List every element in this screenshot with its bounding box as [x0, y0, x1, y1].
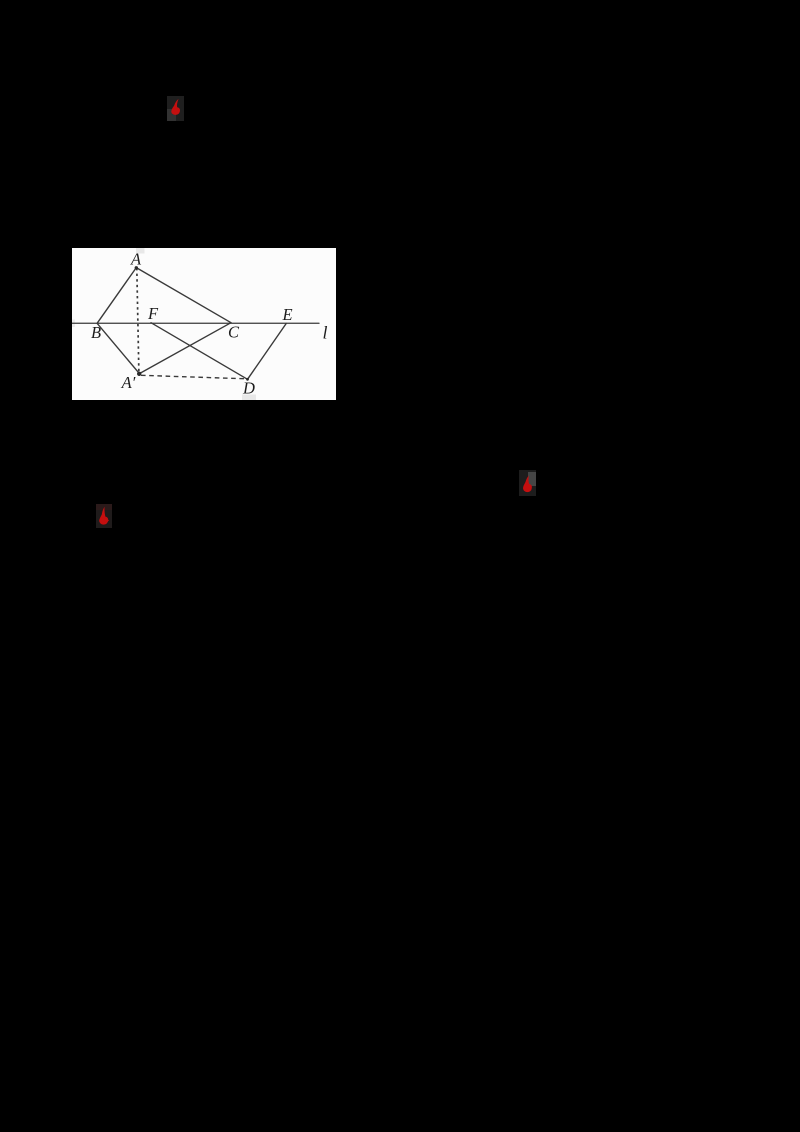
dashed A-A' — [137, 268, 139, 374]
svg-text:l: l — [322, 323, 327, 343]
svg-text:C: C — [228, 323, 240, 342]
red marker icon 3 (left) — [96, 504, 112, 528]
line l — [72, 322, 319, 324]
svg-text:A: A — [130, 250, 142, 269]
gray artifact bottom near D — [242, 395, 256, 401]
svg-text:E: E — [281, 305, 292, 324]
segment A-C — [136, 268, 231, 323]
vertex dot D — [246, 378, 249, 381]
svg-text:B: B — [91, 323, 101, 342]
geometry figure: white inset — [72, 248, 336, 400]
red marker icon 2 (right) — [519, 470, 536, 496]
red marker icon 1 (top) — [167, 96, 184, 121]
segment E-D — [248, 324, 287, 380]
segment A'-C — [139, 323, 231, 374]
gray artifact left edge on line l — [72, 320, 75, 328]
svg-text:A′: A′ — [121, 373, 136, 392]
svg-text:F: F — [147, 304, 159, 323]
gray artifact top — [136, 248, 145, 254]
dashed A'-D — [141, 375, 246, 379]
segment B-A — [97, 268, 136, 324]
vertex dot A — [135, 266, 138, 269]
segment F-D — [151, 323, 248, 380]
segment B-A' — [97, 323, 139, 373]
svg-text:D: D — [242, 379, 255, 398]
vertex dot A' — [137, 372, 141, 376]
